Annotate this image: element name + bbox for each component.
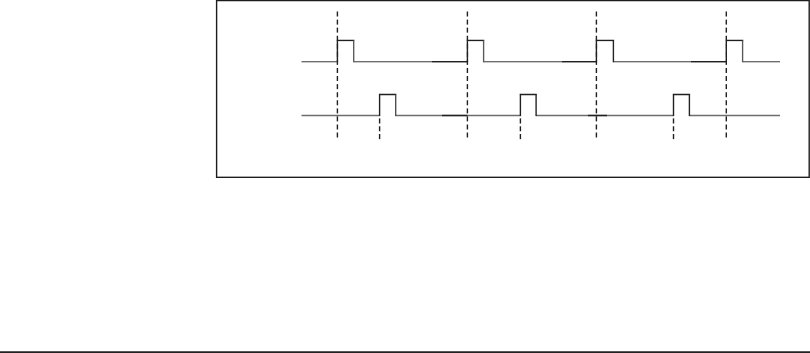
waveform A baseline segment 2 (354, 61, 468, 63)
waveform B baseline segment 2 (396, 115, 521, 117)
waveform A baseline segment 1 (302, 61, 338, 63)
waveform B pulse 3 falling edge (688, 95, 690, 117)
dashed timing line T1 (336, 12, 338, 138)
waveform A dark overlap segment before pulse 2 (432, 61, 467, 63)
waveform A pulse 1 rising edge (336, 40, 338, 63)
dashed timing line T2 (466, 12, 468, 138)
waveform A pulse 3 falling edge (612, 40, 614, 62)
waveform B dark overlap segment across dashed line T3 (588, 115, 607, 117)
waveform A pulse 1 falling edge (353, 40, 355, 62)
waveform A baseline segment 5 (743, 61, 780, 63)
waveform B pulse 1 rising edge (379, 94, 381, 116)
waveform B dark overlap segment before dashed line T2 (442, 115, 467, 117)
waveform A pulse 3 top (596, 39, 614, 41)
figure border box (217, 1, 810, 178)
waveform A pulse 2 top (467, 39, 485, 41)
waveform B pulse 1 falling edge (395, 95, 397, 117)
waveform A pulse 2 rising edge (466, 40, 468, 63)
waveform B baseline segment 1 (302, 115, 380, 117)
waveform B baseline segment 4 (689, 115, 780, 117)
dashed timing line T4 (725, 12, 727, 138)
waveform A baseline segment 3 (484, 61, 597, 63)
waveform B pulse 3 top (673, 94, 690, 96)
waveform B pulse 2 rising edge (519, 94, 521, 116)
waveform A pulse 4 falling edge (742, 40, 744, 62)
waveform B baseline segment 3 (536, 115, 673, 117)
dashed tick below waveform B pulse 3 (673, 118, 675, 139)
waveform A pulse 2 falling edge (483, 40, 485, 62)
waveform B pulse 2 top (520, 94, 537, 96)
waveform A baseline segment 4 (613, 61, 726, 63)
waveform B pulse 2 falling edge (535, 95, 537, 117)
dashed tick below waveform B pulse 1 (379, 118, 381, 139)
waveform B pulse 1 top (379, 94, 396, 96)
waveform B pulse 3 rising edge (673, 94, 675, 116)
page rule at bottom (0, 351, 810, 353)
waveform A pulse 4 rising edge (725, 40, 727, 63)
dashed tick below waveform B pulse 2 (519, 118, 521, 139)
waveform A dark overlap segment before pulse 4 (691, 61, 726, 63)
waveform A pulse 3 rising edge (595, 40, 597, 63)
waveform A pulse 4 top (726, 39, 744, 41)
waveform A pulse 1 top (337, 39, 355, 41)
dashed timing line T3 (595, 12, 597, 138)
waveform A dark overlap segment before pulse 3 (562, 61, 596, 63)
